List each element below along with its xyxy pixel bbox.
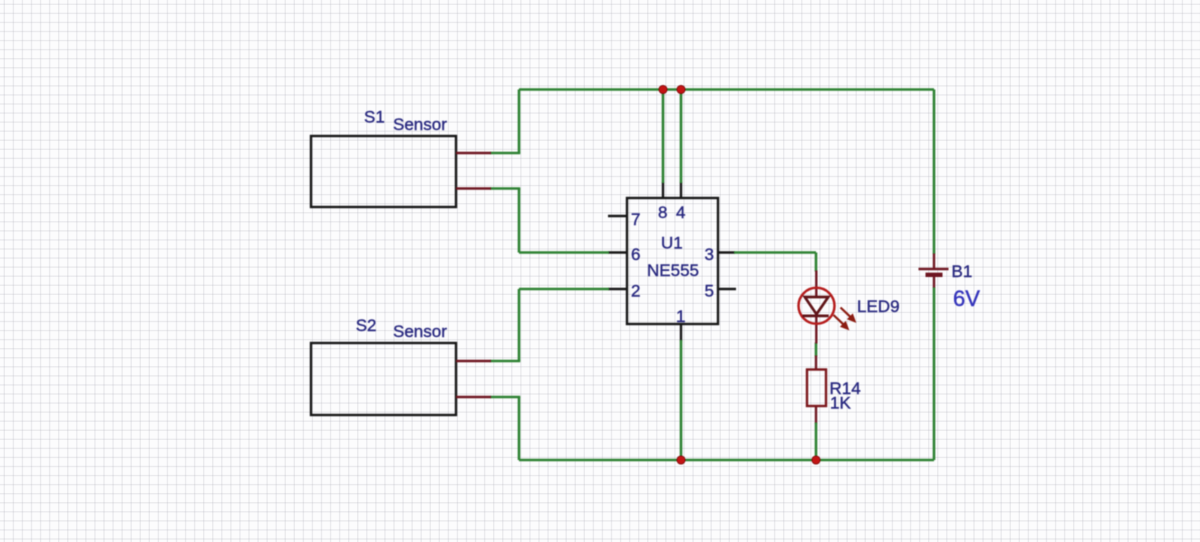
LED bottom stub	[815, 314, 817, 344]
wire resistor to rail	[815, 423, 818, 461]
svg-text:7: 7	[631, 210, 640, 229]
wire S2 bottom horizontal	[490, 396, 520, 399]
S2 top pin stub	[456, 360, 491, 362]
wire pin4 vertical	[680, 90, 683, 184]
LED arrow lower	[834, 315, 849, 330]
wire pin6 horizontal	[519, 251, 609, 254]
wire pin1 vertical	[680, 340, 683, 460]
svg-text:NE555: NE555	[647, 261, 699, 280]
svg-text:S2: S2	[356, 316, 377, 335]
pin 2 stub	[608, 288, 627, 290]
svg-text:U1: U1	[661, 234, 683, 253]
svg-text:S1: S1	[364, 108, 385, 127]
pin 4 stub	[680, 182, 682, 198]
wire battery bottom vertical	[933, 287, 936, 460]
wire pin2 horizontal	[519, 288, 609, 291]
wire S2 to pin2 vertical	[518, 289, 521, 361]
svg-text:B1: B1	[952, 262, 973, 281]
resistor top stub	[815, 356, 817, 371]
wire pin8 vertical	[662, 90, 665, 184]
svg-text:5: 5	[705, 282, 714, 301]
LED top stub	[815, 271, 817, 298]
battery B1 top stub	[933, 254, 935, 269]
LED D9 triangle	[805, 297, 829, 314]
battery B1 short plate	[926, 273, 943, 277]
wire S1 to pin6 vertical	[518, 189, 521, 253]
svg-text:Sensor: Sensor	[393, 115, 447, 134]
svg-text:4: 4	[676, 203, 685, 222]
LED arrow upper	[841, 308, 856, 323]
resistor R14 body	[807, 370, 826, 407]
wire top power rail	[519, 88, 934, 91]
svg-text:1: 1	[676, 307, 685, 326]
svg-text:LED9: LED9	[857, 297, 900, 316]
wire S2 top horizontal	[490, 360, 520, 363]
junction dot top left	[659, 85, 667, 93]
wire pin3 down vertical	[815, 253, 818, 272]
pin 5 stub	[718, 288, 736, 290]
pin 1 stub	[680, 324, 682, 341]
wire pin3 horizontal	[734, 251, 816, 254]
wire S1 top vertical	[518, 90, 521, 154]
pin 7 stub	[608, 215, 627, 217]
wire S2 bottom vertical	[518, 397, 521, 460]
wire S1 top horizontal	[490, 152, 520, 155]
LED D9 circle	[799, 288, 835, 324]
sensor S2 box	[311, 343, 456, 415]
svg-text:6: 6	[631, 245, 640, 264]
S2 bottom pin stub	[456, 396, 491, 398]
junction dot top right	[677, 85, 685, 93]
svg-text:1K: 1K	[830, 394, 851, 413]
LED D9 cathode bar	[803, 315, 829, 318]
wire bottom ground rail	[519, 459, 934, 462]
S1 bottom pin stub	[456, 187, 491, 189]
pin 3 stub	[718, 251, 735, 253]
pin 8 stub	[662, 182, 664, 198]
battery B1 bottom stub	[933, 276, 935, 288]
pin 6 stub	[608, 251, 627, 253]
svg-text:6V: 6V	[953, 286, 980, 311]
svg-text:3: 3	[705, 245, 714, 264]
wire LED to resistor green segment	[815, 343, 818, 357]
op-amp timer U1 NE555 box	[627, 198, 718, 324]
svg-text:Sensor: Sensor	[393, 322, 447, 341]
wire battery top vertical	[933, 90, 936, 255]
junction dot bottom resistor	[812, 456, 820, 464]
S1 top pin stub	[456, 152, 491, 154]
battery B1 long plate	[919, 268, 949, 271]
wire S1 bottom horizontal	[490, 187, 520, 190]
sensor S1 box	[311, 136, 456, 207]
svg-text:8: 8	[658, 203, 667, 222]
svg-text:2: 2	[631, 282, 640, 301]
resistor bottom stub	[815, 406, 817, 424]
junction dot bottom pin1	[677, 456, 685, 464]
